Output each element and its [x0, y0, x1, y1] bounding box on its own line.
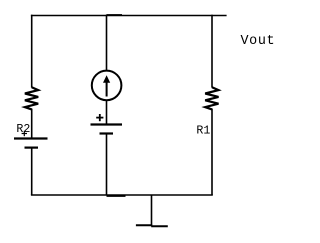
- svg-text:Vout: Vout: [241, 34, 276, 49]
- battery V2: [14, 139, 48, 148]
- node Vout: [241, 34, 276, 49]
- battery V1: [91, 125, 123, 134]
- wire left resistor to battery: [31, 109, 33, 139]
- wire right branch upper: [211, 15, 213, 88]
- wire right resistor to bottom bus: [211, 109, 213, 195]
- battery V2 plus sign: [22, 131, 27, 136]
- svg-text:R1: R1: [196, 125, 210, 138]
- wire middle branch upper: [106, 15, 108, 71]
- wire top bus right segment: [107, 14, 227, 17]
- wire left branch upper: [31, 15, 33, 88]
- wire middle battery to bottom bus: [106, 134, 108, 196]
- wire left battery to bottom bus: [31, 148, 33, 195]
- battery V1 plus sign: [96, 114, 103, 121]
- ground: [136, 195, 168, 226]
- wire current source to battery: [106, 100, 108, 125]
- wire top bus left segment: [31, 15, 107, 17]
- label R1: [196, 125, 210, 138]
- resistor R1: [205, 87, 218, 109]
- resistor R2: [25, 87, 38, 109]
- label R2: [16, 123, 30, 136]
- wire bottom bus: [31, 195, 213, 196]
- current source I1: [92, 71, 122, 101]
